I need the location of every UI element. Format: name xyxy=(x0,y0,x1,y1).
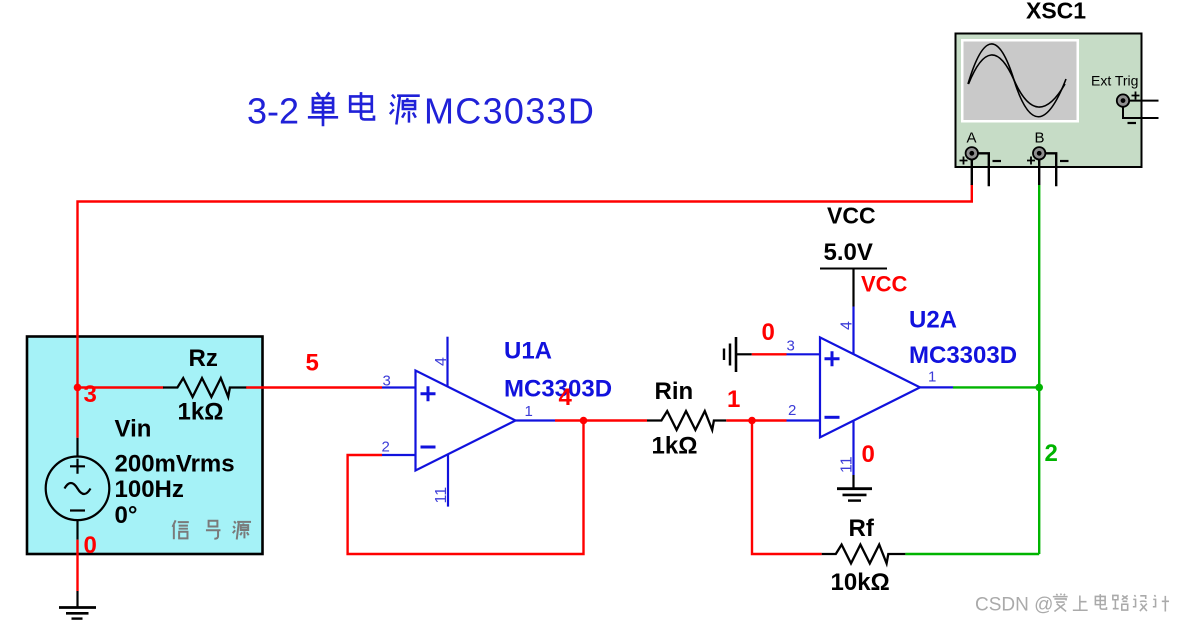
oscilloscope XSC1 body xyxy=(956,34,1142,168)
svg-text:0°: 0° xyxy=(115,502,138,529)
U2A pin4 line (blue part) xyxy=(852,307,854,355)
svg-text:0: 0 xyxy=(762,319,775,346)
oscilloscope screen white frame xyxy=(961,39,1079,123)
wire: ext trig plus lead xyxy=(1129,100,1158,102)
terminal B xyxy=(1033,147,1045,159)
node 1 junction dot xyxy=(748,417,756,425)
wire: scope B minus stub xyxy=(1045,153,1056,186)
terminal A xyxy=(966,147,978,159)
ground (below source) xyxy=(59,591,96,619)
wire: scope B black stub xyxy=(1038,160,1040,186)
resistor Rin xyxy=(647,411,726,430)
op-amp U1A triangle xyxy=(416,371,516,471)
wire: red node3 down to source + xyxy=(76,387,78,437)
svg-text:2: 2 xyxy=(788,402,796,419)
wire: ext trig minus lead xyxy=(1123,107,1159,118)
wire: scope A minus stub xyxy=(978,153,989,186)
sideways ground (U2A pin3) xyxy=(724,337,752,372)
svg-text:4: 4 xyxy=(433,357,450,366)
wire: scope A black stub xyxy=(971,160,973,186)
svg-text:2: 2 xyxy=(1045,440,1058,467)
wire: red node 1 down to Rf xyxy=(752,421,822,555)
U2A pin2 stub xyxy=(787,419,821,421)
svg-text:MC3303D: MC3303D xyxy=(909,342,1017,369)
wire: U2A pin11 to ground (black) xyxy=(852,475,854,488)
svg-text:U1A: U1A xyxy=(504,338,552,365)
svg-text:0: 0 xyxy=(84,532,97,559)
scope trace sine 1 xyxy=(968,44,1066,117)
U2A - input marker xyxy=(825,416,840,419)
svg-text:4: 4 xyxy=(559,384,573,411)
svg-text:100Hz: 100Hz xyxy=(115,476,184,503)
wire: red source minus to ground xyxy=(76,540,78,591)
svg-text:Vin: Vin xyxy=(115,416,152,443)
svg-text:3-2: 3-2 xyxy=(247,91,299,132)
svg-text:3: 3 xyxy=(84,381,97,408)
U1A + input marker xyxy=(421,386,436,401)
U1A pin3 stub xyxy=(382,386,416,388)
svg-text:3: 3 xyxy=(787,338,795,355)
wire: green U2A output to node xyxy=(953,386,1039,388)
wire: green vertical scope B down through node to Rf row xyxy=(1038,185,1040,554)
resistor Rf xyxy=(822,545,906,564)
U1A - input marker xyxy=(421,446,436,449)
U2A pin11 line (blue part) xyxy=(852,421,854,475)
node 3 junction dot xyxy=(74,384,82,392)
terminal B + sign xyxy=(1027,157,1035,165)
svg-text:Ext Trig: Ext Trig xyxy=(1091,73,1138,89)
resistor Rz xyxy=(163,378,246,397)
wire: red node3 to Rz left lead xyxy=(78,386,164,388)
svg-text:11: 11 xyxy=(433,487,450,504)
svg-text:1: 1 xyxy=(727,386,740,413)
terminal B - sign xyxy=(1060,160,1069,162)
scope trace sine 2 xyxy=(969,55,1066,107)
oscilloscope screen xyxy=(964,42,1077,121)
svg-text:1kΩ: 1kΩ xyxy=(178,399,224,426)
svg-text:U2A: U2A xyxy=(909,307,957,334)
ext trig + sign xyxy=(1132,92,1140,100)
svg-text:VCC: VCC xyxy=(861,271,908,296)
svg-text:Rin: Rin xyxy=(655,378,694,405)
svg-text:0: 0 xyxy=(862,441,875,468)
watermark CSDN @爱上电路设计 xyxy=(975,594,1169,616)
U1A output stub pin1 xyxy=(516,419,556,421)
signal source box (cyan annotation rectangle) xyxy=(27,337,263,555)
U2A pin3 stub xyxy=(787,353,821,355)
svg-text:XSC1: XSC1 xyxy=(1026,0,1086,24)
ground (U2A pin11) xyxy=(837,489,872,501)
svg-text:1kΩ: 1kΩ xyxy=(652,433,698,460)
svg-text:4: 4 xyxy=(839,321,856,330)
U2A + input marker xyxy=(825,351,840,366)
wire: long red wire node3 up and across to scope A xyxy=(78,184,972,387)
svg-text:1: 1 xyxy=(525,403,533,420)
svg-text:B: B xyxy=(1035,130,1045,147)
svg-text:5: 5 xyxy=(306,350,319,377)
svg-text:2: 2 xyxy=(382,439,390,456)
svg-text:Rf: Rf xyxy=(849,515,875,542)
svg-text:3: 3 xyxy=(383,373,391,390)
svg-text:11: 11 xyxy=(839,456,856,473)
wire: VCC bar down to U2A pin4 xyxy=(852,269,854,307)
svg-text:VCC: VCC xyxy=(827,203,876,229)
node 4 junction dot xyxy=(580,417,588,425)
wire: red ground to U2A pin3 xyxy=(752,353,787,355)
wire: red U1A output to node 4 and on to Rin xyxy=(555,419,647,421)
svg-text:CSDN @: CSDN @ xyxy=(975,595,1053,616)
title 3-2单电源MC3033D xyxy=(247,91,595,132)
ext trig terminal xyxy=(1117,94,1129,106)
wire: red Rin to U2A pin2 node 1 xyxy=(726,419,786,421)
svg-text:A: A xyxy=(967,130,977,147)
node junction dot (green, U2A out) xyxy=(1035,384,1043,392)
svg-text:1: 1 xyxy=(928,369,936,386)
AC source V1 bottom lead xyxy=(76,520,78,540)
terminal A - sign xyxy=(993,160,1002,162)
U2A output stub pin1 xyxy=(920,386,953,388)
terminal A + sign xyxy=(960,157,968,165)
wire: red feedback U1A output down-left-up to pin2 xyxy=(348,421,584,555)
AC source V1 circle xyxy=(46,457,110,521)
wire: red Rz right lead to U1A pin3 xyxy=(246,386,382,388)
U1A pin4 line xyxy=(446,337,448,387)
op-amp U2A triangle xyxy=(820,337,920,437)
AC source V1 top lead xyxy=(76,438,78,457)
svg-text:MC3033D: MC3033D xyxy=(424,91,595,132)
annotation 信号源 (gray) xyxy=(173,520,252,539)
U1A pin2 stub xyxy=(382,454,416,456)
svg-text:5.0V: 5.0V xyxy=(824,239,873,266)
svg-text:10kΩ: 10kΩ xyxy=(831,569,890,596)
wire: green Rf to output node 2 xyxy=(905,553,1039,555)
VCC power bar xyxy=(820,268,887,270)
svg-text:200mVrms: 200mVrms xyxy=(115,451,235,478)
ext trig - sign xyxy=(1128,122,1137,124)
U1A pin11 line xyxy=(447,454,449,506)
svg-text:Rz: Rz xyxy=(189,345,218,372)
